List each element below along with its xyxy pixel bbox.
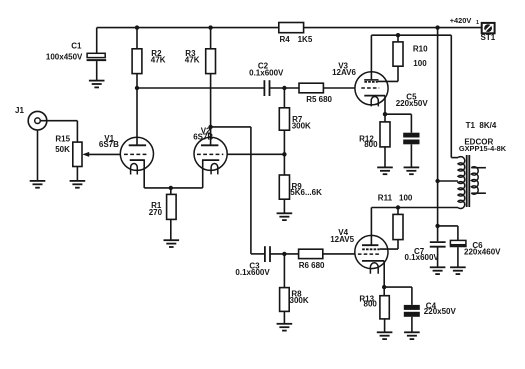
capacitor C5 (electrolytic)	[403, 133, 419, 138]
wire to transformer primary top	[450, 35, 452, 157]
V4 cathode	[362, 260, 384, 262]
node dot rail-R2	[135, 25, 139, 29]
tube V2 6S7B	[194, 137, 227, 170]
node dot V1 plate / C2 net	[135, 86, 139, 90]
resistor R6	[299, 249, 323, 258]
svg-text:12AV5: 12AV5	[330, 235, 354, 244]
V1 heater	[131, 164, 138, 175]
svg-text:R15: R15	[55, 135, 70, 144]
ground (R8)	[277, 324, 293, 331]
resistor R9	[279, 175, 289, 199]
wire R13 to ground	[384, 319, 386, 332]
svg-text:R6 680: R6 680	[299, 261, 325, 270]
V4 plate bar	[362, 244, 378, 246]
svg-text:220x460V: 220x460V	[464, 247, 501, 256]
V2 grid (dashed)	[197, 153, 223, 155]
V3 cathode	[364, 95, 385, 97]
V1 cathode	[130, 159, 145, 161]
V1 grid (dashed)	[124, 153, 147, 155]
capacitor C3	[264, 246, 266, 262]
wire V3 cathode leg	[384, 96, 386, 115]
wire to primary center tap	[438, 180, 458, 182]
svg-text:0.1x600V: 0.1x600V	[405, 253, 440, 262]
node dot C3/R6/R8	[282, 252, 286, 256]
tube V3 12AV6	[355, 72, 388, 105]
svg-text:100x450V: 100x450V	[46, 53, 83, 62]
wire V2 grid to R7/R9 node	[227, 153, 285, 155]
wire V2 cathode leg	[202, 160, 204, 188]
wire C3 to R6	[270, 253, 299, 255]
wire C6 to ground	[457, 247, 459, 267]
node dot rail-R3	[208, 25, 212, 29]
transformer T1 secondary winding	[471, 167, 478, 195]
wire R10 bottom	[397, 66, 399, 81]
resistor R1	[167, 194, 177, 219]
node dot R10 top	[396, 33, 400, 37]
transformer T1 primary winding	[458, 157, 465, 209]
wire R8 to ground	[283, 311, 285, 323]
node dot V3 cathode	[383, 112, 387, 116]
wire R1 to ground	[170, 219, 172, 240]
wire V2 plate branch	[211, 126, 251, 128]
tube V1 6S7B	[120, 137, 153, 170]
wire to R1	[170, 188, 172, 195]
wire V4 plate lead	[370, 208, 372, 245]
wire node to R8	[283, 254, 285, 288]
svg-text:J1: J1	[15, 106, 24, 115]
svg-text:R10: R10	[413, 44, 428, 53]
wire R3 top	[210, 28, 212, 49]
connector ST1	[482, 23, 495, 33]
wire C5 to ground	[410, 144, 412, 167]
resistor R7	[279, 108, 289, 130]
wire V4 cathode leg	[383, 261, 385, 287]
wire V1 cathode leg	[143, 160, 145, 188]
ground (J1)	[30, 181, 46, 188]
V4 grid (dashed)	[358, 253, 380, 255]
svg-text:47K: 47K	[151, 56, 166, 65]
wire node to R9	[283, 154, 285, 175]
wire secondary bottom stub	[471, 192, 486, 194]
wire V1 plate lead	[136, 88, 138, 145]
V3 heater	[371, 97, 378, 107]
wire R9 to ground	[283, 199, 285, 213]
capacitor C4 (electrolytic)	[404, 305, 420, 310]
node dot V4 cathode	[382, 285, 386, 289]
svg-text:5K6...6K: 5K6...6K	[290, 188, 322, 197]
svg-text:100: 100	[413, 59, 427, 68]
svg-text:50K: 50K	[55, 145, 70, 154]
wire R7 to node	[283, 130, 285, 154]
V4 heater	[370, 263, 378, 274]
resistor R11	[393, 214, 403, 239]
resistor R3	[206, 49, 216, 74]
wire V3 plate rail y35	[371, 34, 451, 36]
svg-text:R5 680: R5 680	[306, 95, 332, 104]
svg-text:R4: R4	[280, 35, 291, 44]
svg-text:220x50V: 220x50V	[424, 307, 457, 316]
wire +420V feed down	[437, 28, 439, 242]
wire R12 to ground	[384, 147, 386, 168]
ground (R9)	[277, 213, 293, 220]
wire: +420V top rail	[97, 27, 279, 29]
connector J1	[28, 111, 47, 130]
ground (R12)	[377, 167, 393, 174]
wire to R13	[383, 287, 385, 296]
svg-text:+420V: +420V	[450, 16, 472, 25]
wire R2 bottom	[136, 74, 138, 88]
wire secondary top stub	[471, 167, 486, 169]
svg-text:ST1: ST1	[481, 33, 496, 42]
wire R2 top	[136, 28, 138, 49]
node dot C2/R5/R7	[282, 86, 286, 90]
capacitor C1	[96, 28, 98, 54]
wire R5 to V3 grid	[323, 87, 355, 89]
wire V3 plate lead	[370, 35, 372, 79]
svg-text:R11: R11	[378, 194, 393, 203]
wiper arrow R15 to V1 grid	[88, 153, 120, 155]
capacitor C2	[263, 80, 265, 96]
wire R3 bottom to V2 plate node	[210, 74, 212, 127]
capacitor C7	[430, 241, 446, 243]
wire R15 to ground	[76, 167, 78, 181]
ground (R1)	[164, 240, 180, 247]
ground (C1)	[89, 81, 105, 88]
wire to R7	[283, 88, 285, 108]
svg-text:1: 1	[476, 20, 479, 26]
resistor R5	[299, 83, 323, 93]
svg-text:6S7B: 6S7B	[99, 140, 119, 149]
ground (C4)	[404, 332, 420, 339]
wire cathode to C4	[384, 286, 412, 288]
svg-text:GXPP15-4-8K: GXPP15-4-8K	[459, 144, 507, 153]
resistor R12	[380, 122, 390, 147]
wire V2 plate lead	[210, 127, 212, 145]
transformer T1 core	[466, 155, 468, 207]
wire R11 bottom	[397, 240, 399, 250]
resistor R10	[393, 42, 403, 66]
svg-text:800: 800	[364, 140, 378, 149]
wire R10 top	[397, 35, 399, 42]
wire C2 to R5	[270, 87, 300, 89]
svg-text:47K: 47K	[185, 56, 200, 65]
svg-text:100: 100	[399, 194, 413, 203]
node dot cathode bus / R1	[169, 186, 173, 190]
svg-text:220x50V: 220x50V	[396, 99, 429, 108]
node dot R11 top	[396, 205, 400, 209]
wire to V3 screen	[378, 80, 398, 82]
wire to V4 screen	[380, 248, 398, 250]
capacitor C6 (electrolytic)	[450, 240, 466, 244]
V4 screen (dashes)	[362, 248, 379, 250]
svg-text:800: 800	[364, 299, 378, 308]
svg-text:270: 270	[149, 208, 163, 217]
svg-text:12AV6: 12AV6	[332, 68, 356, 77]
node dot V2 plate node	[208, 125, 212, 129]
V3 grid (dashed)	[361, 87, 379, 89]
node dot R7/R9/V2 grid	[282, 152, 286, 156]
ground (R13)	[377, 332, 393, 339]
wire to R12	[384, 114, 386, 122]
wire J1 to R15	[40, 120, 77, 122]
svg-text:0.1x600V: 0.1x600V	[249, 68, 284, 77]
wire R6 to V4 grid	[323, 253, 356, 255]
node dot rail-feed	[435, 25, 439, 29]
node dot filter caps	[435, 224, 439, 228]
resistor R4	[279, 23, 304, 33]
svg-text:T1 8K/4: T1 8K/4	[466, 121, 497, 130]
wire cathode bus V1-V2	[144, 187, 203, 189]
wire C7 to ground	[437, 247, 439, 268]
svg-text:C1: C1	[71, 41, 82, 50]
ground (C5)	[404, 167, 420, 174]
wire R11 top	[397, 208, 399, 215]
resistor R2	[132, 49, 142, 74]
ground (C7)	[430, 267, 446, 274]
V2 cathode	[202, 159, 219, 161]
potentiometer R15	[73, 142, 82, 166]
resistor R13	[380, 296, 389, 319]
node dot center tap	[435, 179, 439, 183]
svg-text:300K: 300K	[290, 296, 309, 305]
wire J1 to ground	[37, 130, 39, 181]
wire to C6	[438, 225, 458, 227]
resistor R8	[280, 288, 290, 312]
V2 heater	[211, 163, 218, 174]
svg-text:1K5: 1K5	[298, 35, 313, 44]
V3 plate bar	[364, 79, 378, 81]
ground (R15)	[70, 181, 86, 188]
wire down to C3	[250, 127, 252, 254]
ground (C6)	[450, 267, 466, 274]
wire V4 plate rail y207	[371, 207, 458, 209]
tube V4 12AV5	[355, 235, 388, 268]
V3 screen (dashes)	[364, 81, 377, 83]
wire C4 to ground	[411, 317, 413, 333]
svg-text:300K: 300K	[292, 122, 311, 131]
wire cathode to C5	[385, 113, 411, 115]
svg-text:0.1x600V: 0.1x600V	[235, 268, 270, 277]
wire V1 plate to C2	[137, 87, 264, 89]
